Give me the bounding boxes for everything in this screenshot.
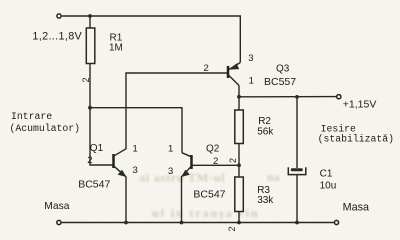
svg-text:Masa: Masa [44, 201, 69, 212]
junction node C1 top [295, 95, 299, 99]
svg-text:(Acumulator): (Acumulator) [10, 123, 81, 134]
svg-text:Q2: Q2 [206, 144, 220, 155]
junction node R1 top [88, 14, 92, 18]
wire: Q2 emitter down to ground rail [181, 177, 183, 223]
transistor Q3 [228, 63, 240, 86]
wire: Q1 collector up and across to Q3 base [126, 73, 227, 149]
svg-text:33k: 33k [257, 195, 274, 206]
svg-text:2: 2 [227, 226, 237, 231]
svg-text:56k: 56k [257, 126, 274, 137]
terminal input + [57, 14, 61, 18]
svg-text:3: 3 [248, 53, 253, 64]
terminal output + [337, 95, 341, 99]
svg-text:3: 3 [133, 165, 138, 176]
terminal ground right [334, 220, 338, 224]
resistor R2 [235, 110, 244, 144]
svg-text:Intrare: Intrare [11, 111, 52, 122]
junction node C1 bottom on ground rail [295, 221, 299, 225]
svg-text:2: 2 [204, 63, 209, 74]
svg-text:Masa: Masa [343, 202, 369, 214]
wire: Q1 emitter down to ground rail [125, 177, 127, 223]
junction node divider R2/R3/Q2 base [237, 163, 241, 167]
junction node R3 bottom on ground rail [237, 221, 241, 225]
svg-text:1: 1 [133, 143, 138, 154]
svg-text:1M: 1M [109, 43, 123, 54]
wire: R3 bottom lead to ground rail [238, 212, 240, 223]
wire: R1 bottom lead down to mid junction and Q1 base corner [90, 64, 114, 166]
wire: R1 top lead [89, 16, 91, 28]
svg-text:2: 2 [87, 155, 92, 166]
svg-text:1,2...1,8V: 1,2...1,8V [32, 31, 82, 43]
resistor R1 [86, 28, 95, 64]
svg-text:BC557: BC557 [264, 76, 296, 88]
svg-text:2: 2 [81, 77, 91, 82]
svg-text:na: na [267, 170, 280, 184]
svg-text:2: 2 [228, 158, 238, 163]
svg-text:Q1: Q1 [90, 143, 104, 154]
junction node Q1 emitter on ground rail [124, 221, 128, 225]
svg-text:1: 1 [168, 143, 173, 154]
wire: Q3 collector node down to R2 top [238, 86, 240, 111]
svg-text:BC547: BC547 [193, 189, 225, 201]
svg-text:Q3: Q3 [276, 64, 290, 75]
svg-text:C1: C1 [320, 169, 333, 180]
transistor Q2 [181, 153, 191, 177]
svg-text:2: 2 [213, 156, 218, 167]
wire: top rail from input terminal to Q3 emitter corner [62, 16, 241, 63]
capacitor C1 cup electrode [288, 167, 306, 174]
wire: mid rail from R1 node to Q2 collector [90, 108, 182, 153]
svg-text:10u: 10u [320, 181, 337, 192]
svg-text:3: 3 [168, 166, 173, 177]
svg-text:1: 1 [249, 75, 254, 86]
resistor R3 [235, 177, 244, 212]
junction node Q2 emitter on ground rail [180, 221, 184, 225]
wire: output line from Q3 collector node to output terminal [239, 96, 336, 98]
svg-text:+1,15V: +1,15V [343, 99, 377, 111]
wire: C1 top lead [296, 97, 298, 168]
wire: R2 bottom lead to divider node [238, 144, 240, 166]
junction node Q3 collector / R2 / output [237, 95, 241, 99]
transistor Q1 [114, 149, 127, 177]
junction node R1 bottom / mid rail [88, 106, 92, 110]
wire: R3 top lead [238, 165, 240, 177]
wire: Q2 base to divider node [193, 164, 240, 166]
svg-text:BC547: BC547 [78, 179, 110, 191]
wire: C1 bottom lead to ground rail [296, 175, 298, 223]
wire: ground rail [62, 222, 334, 224]
terminal ground left [57, 220, 61, 224]
svg-text:(stabilizată): (stabilizată) [318, 134, 394, 145]
capacitor C1 plus plate [291, 168, 303, 171]
